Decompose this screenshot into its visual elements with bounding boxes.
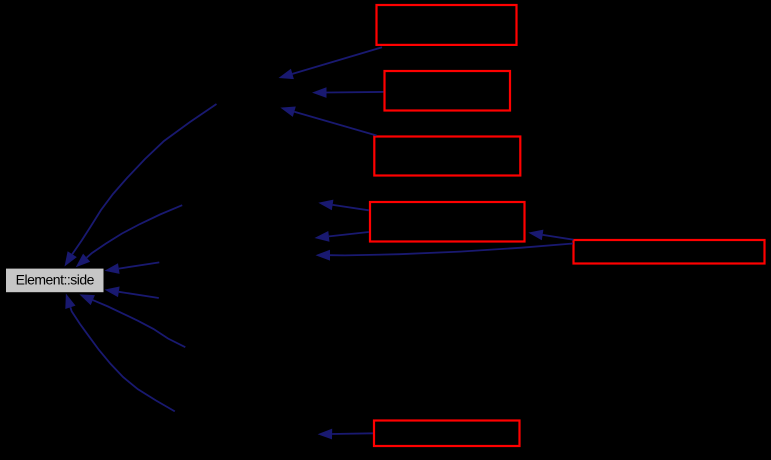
- edge S8: from box R6 left edge to hidden node: [318, 429, 373, 440]
- caller box R2: [385, 71, 511, 111]
- caller box R4: [370, 202, 525, 242]
- edge E: long curve into bottom of Element::side: [65, 294, 175, 412]
- caller box R5 (right column): [574, 240, 765, 264]
- edge C: short arrow into right edge (upper) of Element::side: [105, 262, 160, 274]
- edge S6: from box R5 top-left into box R4 right edge: [528, 230, 573, 241]
- edge D: short arrow into right edge (lower) of Element::side: [105, 287, 159, 299]
- edge S7: long near-horizontal from box R5 to hidden node: [316, 244, 574, 261]
- caller box R6 (bottom): [374, 421, 520, 447]
- svg-text:Element::side: Element::side: [16, 272, 95, 288]
- edge B: curve into top of Element::side: [76, 205, 183, 267]
- edge S1: from box R1 bottom-left to hidden node: [279, 47, 383, 79]
- edge S2: from box R2 left edge to hidden node: [312, 87, 384, 98]
- caller box R3: [374, 137, 520, 176]
- node Element::side (grey central node): [6, 269, 104, 293]
- edge F: curve into bottom of Element::side: [79, 294, 185, 347]
- edge S5: from box R4 left edge (bottom) to hidden node: [315, 231, 369, 242]
- edge S3: from box R3 top-left to hidden node: [280, 107, 376, 136]
- edge S4: from box R4 left edge (top) to hidden node: [318, 200, 369, 211]
- edge A: long curve into top of Element::side: [65, 104, 217, 267]
- caller box R1 (top, red truncated node): [377, 5, 517, 45]
